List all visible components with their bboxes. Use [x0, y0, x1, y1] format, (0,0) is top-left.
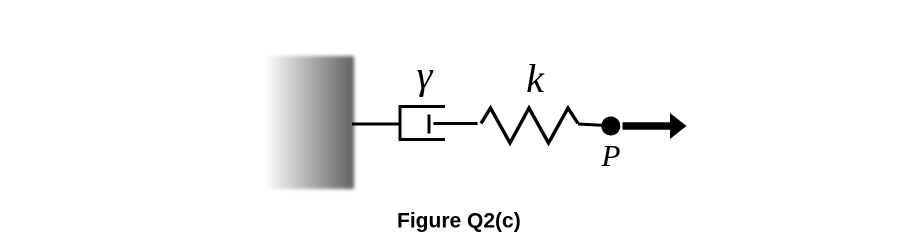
wire: spring to node P [578, 124, 606, 126]
svg-text:P: P [601, 138, 621, 173]
svg-text:Figure Q2(c): Figure Q2(c) [397, 210, 521, 233]
wall (fixed support) [264, 56, 354, 189]
svg-text:k: k [526, 56, 545, 101]
wire: wall to damper [352, 123, 400, 126]
wire: damper piston to spring [434, 122, 478, 125]
svg-text:γ: γ [417, 53, 434, 98]
damper cylinder [400, 107, 445, 140]
force arrow at P [623, 113, 687, 139]
node P (mass point) [601, 117, 620, 136]
damper piston [428, 115, 431, 134]
spring k [481, 108, 578, 143]
